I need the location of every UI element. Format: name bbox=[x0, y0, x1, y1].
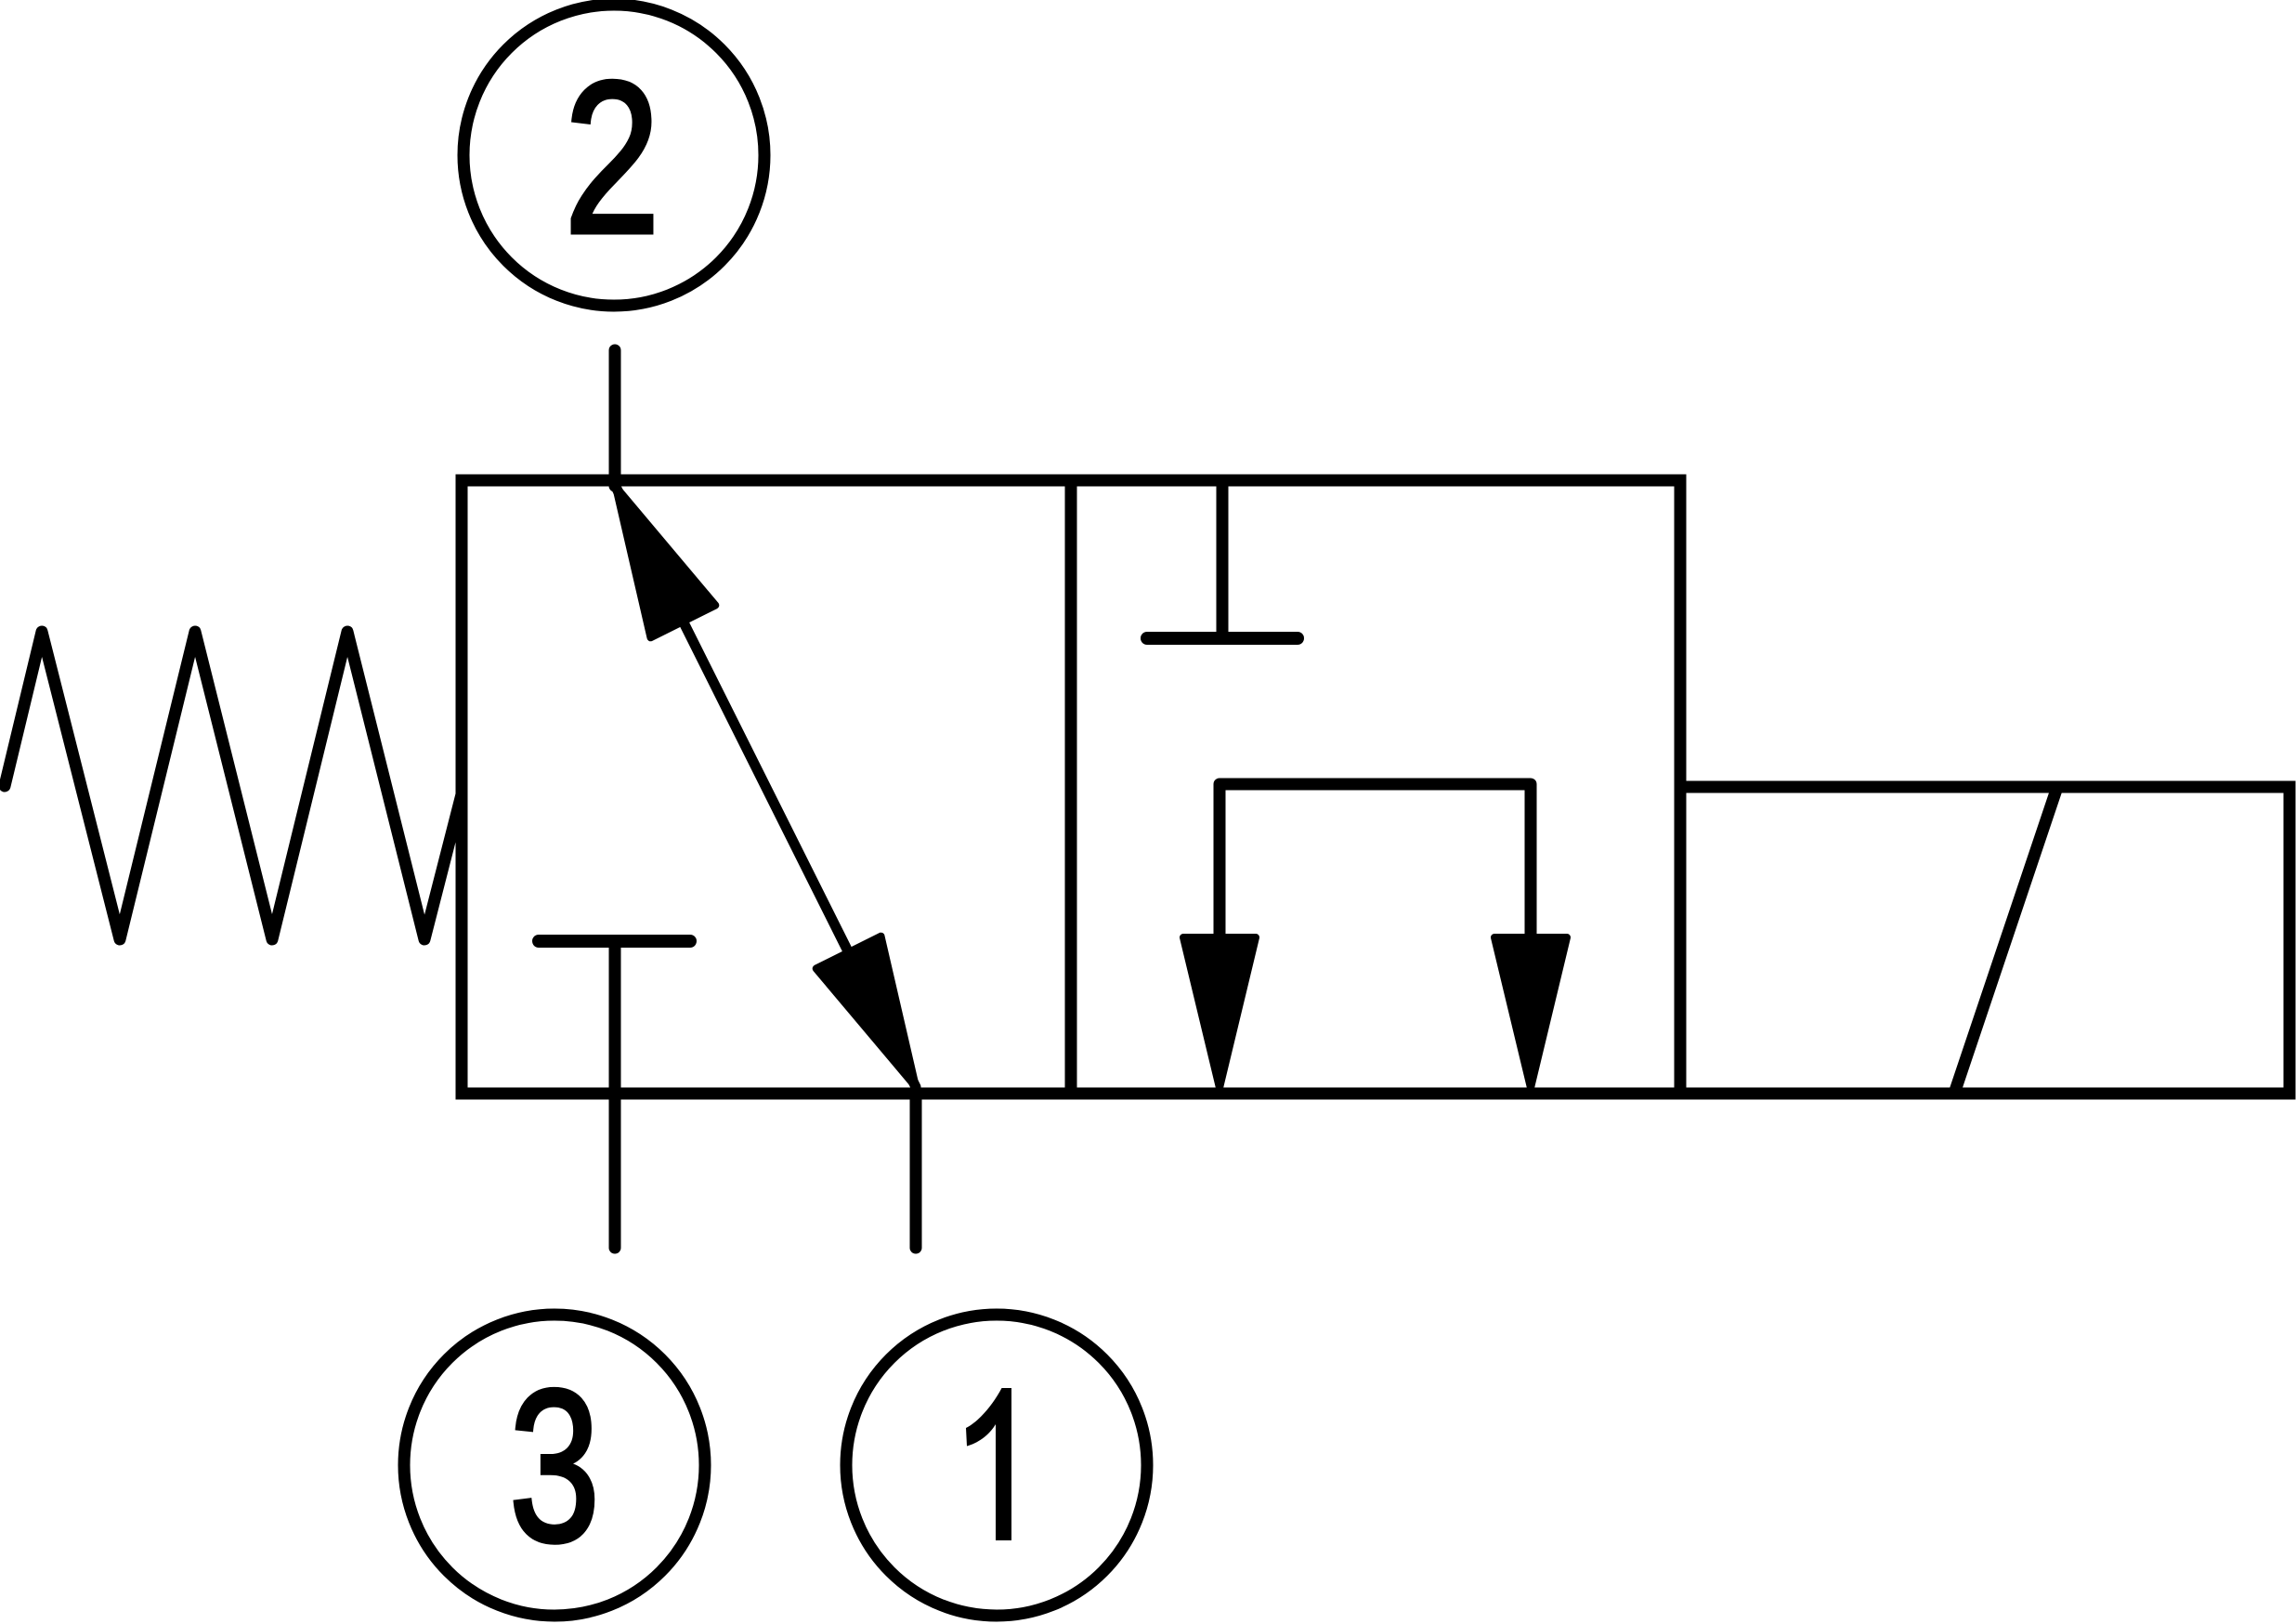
svg-text:2: 2 bbox=[564, 36, 660, 279]
port 2 label circle bbox=[463, 5, 764, 306]
solenoid box bbox=[1680, 787, 2289, 1094]
port 1 label text (custom glyph, no foot serif) bbox=[966, 1388, 1011, 1540]
wire port 1 stub bbox=[910, 1094, 922, 1248]
port 3 label circle bbox=[404, 1315, 705, 1616]
blocked port 3 stem wire bbox=[609, 941, 621, 1248]
flow path arrowhead top bbox=[616, 487, 715, 637]
blocked port T (right box, top) stem bbox=[1217, 480, 1229, 636]
solenoid diagonal stroke bbox=[1954, 787, 2057, 1094]
svg-text:3: 3 bbox=[509, 1344, 600, 1586]
valve body position box right (position 2) bbox=[1071, 480, 1680, 1094]
blocked port T (right box, top) bar bbox=[1147, 632, 1298, 645]
flow path arrow shaft (port 1 to port 2) bbox=[616, 487, 916, 1087]
bridge down arrowhead right bbox=[1494, 937, 1567, 1088]
flow path arrowhead bottom bbox=[816, 936, 916, 1087]
wire port 2 stub bbox=[609, 350, 621, 486]
port 1 label circle bbox=[846, 1315, 1147, 1616]
blocked port 3 T-bar bbox=[539, 935, 690, 948]
bridge down arrowhead left bbox=[1183, 937, 1256, 1088]
spring (return spring, left side) bbox=[5, 632, 462, 939]
valve body position box left (position 1) bbox=[462, 480, 1071, 1094]
bridge link (right box, two ports joined) bbox=[1220, 784, 1531, 948]
